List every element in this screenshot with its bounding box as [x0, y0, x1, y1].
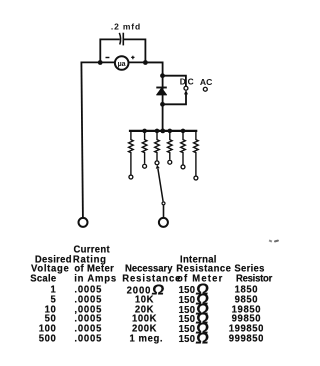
DC jack open circle — [184, 86, 188, 90]
junction dot bus feed — [160, 129, 165, 134]
capacitor C1 curved plate — [119, 33, 120, 45]
wire pivot to terminal — [163, 205, 165, 217]
wire: DC branch bottom — [163, 93, 186, 105]
switch S1 arm — [158, 169, 163, 202]
junction dot at DC branch top — [160, 73, 165, 78]
wire: DC branch top — [163, 76, 186, 87]
terminal circle R6 — [194, 176, 198, 180]
row 1 — [26, 285, 56, 295]
row 4 — [26, 314, 56, 324]
junction dot bus R3 — [155, 129, 160, 134]
AC jack open circle — [203, 87, 207, 91]
resistor R2 — [142, 131, 147, 164]
terminal big circle right — [159, 218, 168, 227]
wire: right run and main vertical drop — [145, 62, 162, 130]
junction dot at DC branch bottom — [160, 102, 165, 107]
svg-text:µa: µa — [118, 60, 126, 68]
wire: capacitor loop top-right+right — [124, 39, 145, 62]
junction dot right of meter — [143, 60, 148, 65]
terminal circle R4 — [168, 160, 172, 164]
resistor R3 — [155, 131, 160, 161]
switch S1 arrowhead — [156, 165, 160, 169]
wire: meter-level horizontal — [81, 61, 162, 63]
scan smudge top-right — [269, 240, 272, 243]
table header line 2 — [35, 255, 72, 265]
svg-text:.2 mfd: .2 mfd — [111, 21, 141, 31]
row 5 — [26, 324, 56, 334]
junction dot left of meter — [98, 60, 103, 65]
junction dot bus R4 — [168, 129, 173, 134]
terminal circle R3 — [155, 161, 159, 165]
svg-text:D: D — [180, 76, 186, 86]
DC jack arrow — [184, 90, 188, 94]
meter M1 circle — [115, 56, 129, 70]
diode D1 cathode bar — [156, 87, 167, 89]
terminal big circle left — [79, 218, 88, 227]
junction dot bus R2 — [142, 129, 147, 134]
wire: capacitor loop left+top-left — [100, 39, 119, 62]
meter plus sign — [131, 56, 134, 60]
switch S1 pivot circle — [162, 202, 165, 205]
table header line 3 — [31, 264, 70, 274]
terminal circle R1 — [129, 175, 133, 179]
table header line 4 — [30, 274, 56, 284]
junction dot bus R5 — [181, 129, 186, 134]
resistor R1 — [129, 131, 134, 175]
terminal circle R5 — [181, 165, 185, 169]
bus wire (resistor bank) — [130, 130, 196, 132]
row 3 — [26, 305, 56, 315]
capacitor C1 straight plate — [122, 33, 124, 46]
svg-text:AC: AC — [200, 77, 212, 87]
meter minus sign — [106, 57, 110, 59]
row 2 — [26, 295, 56, 305]
wire: left vertical drop to terminal — [81, 62, 83, 217]
row 6 — [26, 334, 56, 344]
table header line 1 — [74, 245, 110, 255]
resistor R4 — [168, 131, 173, 160]
terminal circle R2 — [143, 164, 147, 168]
resistor R5 — [181, 131, 186, 165]
svg-text:C: C — [188, 76, 194, 86]
resistor R6 — [194, 131, 199, 176]
diode D1 triangle — [157, 88, 167, 95]
